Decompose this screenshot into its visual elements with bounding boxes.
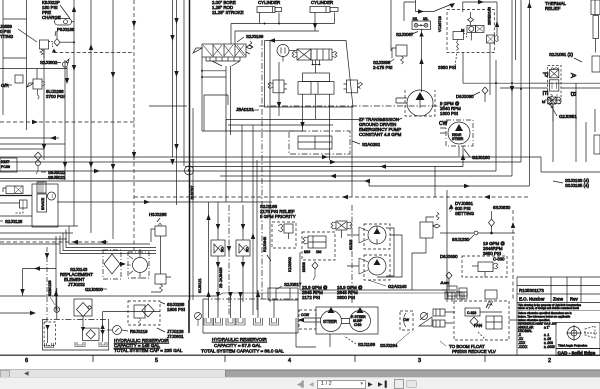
wires valve to blocks (313, 60, 320, 73)
svg-text:K0808: K0808 (302, 262, 306, 272)
svg-text:CAPACITY = 57.5 GAL: CAPACITY = 57.5 GAL (214, 343, 262, 348)
relief circle valve (56, 288, 58, 319)
svg-text:Unless otherwise specified dim: Unless otherwise specified dimensions ar… (518, 311, 572, 315)
wire (185, 146, 463, 167)
arrow right top wire (478, 0, 484, 4)
wires from pump box (296, 318, 316, 347)
S2J1168 priority relief group (260, 204, 302, 300)
wire (dashed) (0, 121, 134, 123)
wire (183, 0, 185, 166)
check diamond 6SJ0830 (489, 219, 495, 226)
dashed control box (302, 232, 335, 260)
spring left (292, 52, 297, 58)
svg-text:S2B0159: S2B0159 (48, 280, 52, 296)
wire (192, 108, 194, 300)
right edge verticals (586, 109, 595, 162)
svg-text:61J8121: 61J8121 (198, 278, 202, 293)
arrow up x421 mid (419, 58, 423, 64)
svg-text:unless otherwise specified.: unless otherwise specified. (518, 318, 550, 322)
diagonal wire (434, 4, 453, 12)
arrow left y268 (34, 266, 40, 270)
wires through check valves (218, 202, 243, 302)
top right valve M (467, 25, 476, 32)
wire (26, 0, 28, 130)
valve M top (548, 97, 556, 104)
svg-text:22L: 22L (413, 17, 419, 21)
svg-text:S2J1189: S2J1189 (358, 342, 376, 347)
wire x208.5 to reservoir (208, 202, 210, 290)
BRAKE box (37, 194, 47, 212)
dash-dot vertical x352 (351, 205, 353, 305)
wires into reservoir (209, 290, 275, 318)
wire diamond to bus (60, 41, 74, 43)
wire right (445, 312, 455, 323)
left vertical bus wires (3, 0, 193, 300)
heavy trunk wire (189, 0, 191, 300)
small rect below (485, 290, 497, 299)
arrows in reservoir drop (100, 324, 104, 329)
left box (273, 80, 284, 93)
arrow up x421 below box (419, 32, 423, 37)
arrow left on y176 (330, 174, 336, 178)
dashed vertical x122 (46, 247, 48, 322)
right mid wires (435, 97, 600, 302)
wire x270 (269, 41, 271, 303)
svg-text:E: E (541, 91, 550, 96)
svg-text:R105301173: R105301173 (519, 288, 544, 293)
svg-text:Rev: Rev (570, 297, 579, 302)
emergency pump block (298, 136, 332, 149)
junction circle on trunk (185, 166, 194, 175)
valve C-323 (465, 308, 480, 316)
svg-text:2B JAJ8435: 2B JAJ8435 (219, 268, 223, 288)
lower center-left group (149, 202, 250, 315)
wire x253 (252, 125, 254, 315)
wire (43, 49, 45, 160)
arrow left on enclosure top (269, 38, 275, 42)
junction dot (490, 232, 493, 235)
left cluster outer box (32, 184, 58, 227)
top-right pump circuit (373, 0, 548, 186)
svg-text:2172 PSI: 2172 PSI (302, 295, 320, 300)
svg-text:JBA0131: JBA0131 (236, 107, 254, 112)
directional valve S2J0199 (hatched 4-way) (193, 41, 253, 57)
wire y311.6 to gauge (103, 311, 160, 313)
3350 PSI relief (453, 32, 464, 40)
dashed box lower right (462, 256, 507, 277)
wires connecting motors (377, 228, 402, 277)
right box (592, 56, 600, 72)
svg-text:S3J0185 (4): S3J0185 (4) (565, 183, 589, 188)
diamond box in reservoir (83, 328, 100, 340)
svg-text:3350 PSI: 3350 PSI (438, 65, 456, 70)
accumulator (55, 19, 72, 26)
arrow down dash-dot (227, 246, 231, 252)
steering pump group (217, 292, 496, 354)
wire from gauge down (421, 29, 423, 92)
arrow up x529 (527, 2, 531, 8)
solenoid box with X (550, 70, 559, 78)
wire (0, 157, 600, 172)
svg-text:C-323: C-323 (467, 311, 476, 315)
wire (64, 60, 66, 180)
arrow right y313 left edge (30, 311, 36, 315)
wire dashed (0, 241, 109, 243)
bottom toolbar with page navigation (0, 377, 600, 389)
arrow down (111, 164, 115, 170)
third angle projection box (556, 323, 600, 349)
diamond D6J0080 (482, 87, 488, 94)
svg-text:CYLINDER: CYLINDER (311, 0, 333, 5)
valve block with X (297, 49, 311, 60)
svg-text:± 1°: ± 1° (544, 326, 550, 330)
leader wire (18, 29, 37, 42)
filter dash-dot box (103, 250, 121, 279)
lower right group (440, 201, 515, 302)
right box (347, 80, 358, 93)
arrow left on dashed y242 (72, 240, 78, 244)
svg-text:9 GPM PRIORITY: 9 GPM PRIORITY (260, 214, 296, 219)
down arrow x305 (300, 122, 304, 128)
arrow left on dashed y242 b (100, 240, 106, 244)
svg-text:C-330: C-330 (493, 257, 505, 262)
svg-text:Zone: Zone (553, 297, 564, 302)
arrow right on y157 (322, 155, 328, 159)
staircase wires (0, 225, 78, 227)
solenoid valve small (336, 221, 347, 230)
cylinder 1 (257, 7, 275, 13)
dashed enclosure around pilot group (447, 10, 494, 53)
drawing border + zone numbers (0, 355, 600, 364)
dash-dot vertical x262 (261, 40, 263, 300)
arrow up x56 (54, 290, 58, 296)
box K157 (0, 158, 17, 172)
svg-text:32L: 32L (423, 17, 429, 21)
left mid components (0, 152, 156, 322)
spring right (332, 52, 337, 58)
pump STEER (321, 311, 342, 332)
wire from rear pump down (458, 146, 460, 156)
svg-text:CHARGE: CHARGE (42, 15, 61, 20)
arrow down (111, 72, 115, 78)
arrow up small (52, 49, 56, 53)
bottom-left reservoir group (0, 288, 298, 354)
reservoir box (42, 319, 108, 350)
arrow up x253 (251, 233, 255, 239)
wire left edge (2, 0, 4, 115)
wire (3, 18, 27, 20)
wire y216 (0, 215, 32, 217)
dashed vertical x513 (512, 210, 514, 301)
arrow down x67 (65, 78, 69, 84)
wire (112, 0, 114, 239)
svg-text:G2J0800: G2J0800 (85, 287, 103, 292)
big enclosure box (204, 95, 228, 131)
svg-text:3700 PGI: 3700 PGI (46, 94, 65, 99)
heavy vertical into reservoir (188, 300, 190, 333)
right reservoir box (203, 299, 298, 333)
spring bottom (550, 94, 553, 108)
wire (0, 161, 521, 163)
dashes below valve2 (15, 208, 23, 213)
arrow down on cyl2 drop (313, 23, 317, 29)
buses turning right-down (446, 190, 448, 302)
arrow down x166 (170, 35, 174, 41)
zone ticks (93, 355, 485, 362)
shaft between pumps (341, 319, 350, 324)
wire (3, 84, 12, 86)
small solenoid valve (487, 35, 495, 43)
svg-text:K157: K157 (1, 160, 9, 164)
top-left area (0, 0, 133, 99)
svg-text:CONSTANT 4.6 GPM: CONSTANT 4.6 GPM (359, 132, 402, 137)
svg-text:inches. The tolerances below: inches. The tolerances below are applica… (518, 315, 571, 319)
dashed pump box (405, 90, 435, 116)
arrow down x22 (20, 289, 24, 295)
arrow down (132, 152, 136, 158)
filter box 1 (74, 299, 92, 316)
PEAB valve dashed enclosure (548, 65, 562, 103)
arrow right from filter (120, 262, 126, 266)
svg-text:S2J0802: S2J0802 (40, 60, 58, 65)
wire (0, 176, 512, 179)
junction dots (495, 82, 497, 84)
svg-text:A: A (569, 73, 578, 78)
open circle 6SJ1330 (474, 231, 478, 235)
svg-text:28RE0183: 28RE0183 (488, 7, 492, 25)
arrows on check valve wires (216, 224, 220, 230)
arrow down filter drop (81, 327, 85, 331)
svg-text:HYDRAULIC RESERVOIR: HYDRAULIC RESERVOIR (212, 337, 267, 342)
top right component (591, 0, 600, 15)
svg-text:O/R: O/R (1, 83, 9, 88)
arrow down (132, 21, 136, 27)
arrow down (174, 144, 178, 150)
striped cylinder (311, 49, 332, 60)
motor circle pair (364, 224, 390, 249)
arrow right on y188 (464, 184, 470, 188)
trapezoid enclosure (265, 41, 354, 108)
svg-text:S2J0199: S2J0199 (246, 34, 264, 39)
lower middle pump assembly (300, 205, 456, 305)
dashed leader (478, 332, 486, 340)
wires y170-175 right (434, 166, 436, 197)
svg-text:2: 2 (548, 358, 551, 364)
svg-text:STEER: STEER (452, 137, 464, 141)
arrow down x166 low (170, 159, 174, 165)
check diamond right (446, 272, 452, 279)
gauge circle (421, 313, 428, 320)
svg-text:FAN: FAN (474, 323, 482, 328)
arrow right on y162 (330, 160, 336, 164)
svg-text:P: P (541, 72, 550, 77)
priority valve box (272, 222, 296, 248)
title block (517, 277, 600, 356)
spring right of right box (358, 83, 363, 89)
arrow right on dashed wire (32, 120, 38, 124)
arrows down near x279 (277, 102, 281, 108)
CCW dashed box (299, 310, 316, 329)
arrow left on y166 (380, 164, 386, 168)
check valve diamond (35, 152, 42, 160)
top wire with corner (463, 2, 497, 35)
wire (90, 0, 92, 233)
gauge circle R8J0219 (113, 326, 122, 335)
svg-text:3: 3 (418, 358, 421, 364)
dash-dot vertical x229 (228, 205, 230, 315)
svg-text:JTJ0232: JTJ0232 (68, 282, 85, 287)
diamond (470, 317, 478, 326)
wire (176, 0, 178, 205)
striped block (37, 182, 46, 193)
CAD solid edge box (556, 349, 600, 356)
reservoir inlet arrows (206, 291, 210, 297)
twin pipe down (226, 66, 231, 202)
svg-text:6SJ0830: 6SJ0830 (493, 205, 511, 210)
cylinder 2 (310, 7, 330, 13)
svg-text:6: 6 (25, 358, 28, 364)
svg-text:G2A0248: G2A0248 (388, 284, 407, 289)
staircase drops (60, 226, 156, 254)
heavy wire y195.5 (0, 195, 32, 197)
wire (73, 0, 75, 226)
cone symbol (585, 326, 595, 338)
arrow down x175 (174, 18, 178, 24)
svg-text:± .0005: ± .0005 (544, 345, 555, 349)
horizontal scrollbar (0, 369, 600, 377)
svg-text:G2J0180: G2J0180 (472, 155, 490, 160)
svg-text:M16: M16 (304, 250, 310, 254)
arrow up x91 (89, 44, 93, 50)
svg-text:R8J0219: R8J0219 (130, 329, 148, 334)
svg-text:E.O. Number: E.O. Number (519, 297, 545, 302)
svg-text:1806 PSI: 1806 PSI (167, 307, 185, 312)
gauge circle S2J0802 (62, 62, 67, 67)
check symbol P8J0188 (54, 39, 60, 46)
wire (0, 148, 44, 150)
svg-text:2-175 PSI: 2-175 PSI (373, 65, 393, 70)
pump shaft (396, 98, 407, 103)
wires from x202 to pipe (202, 71, 226, 77)
CW dashed box right (400, 311, 413, 330)
upper small rect (303, 73, 330, 82)
svg-text:62J08: 62J08 (349, 240, 353, 250)
wire x56 down (55, 236, 57, 310)
svg-text:CCW: CCW (301, 313, 310, 317)
arrow right on y181 (364, 179, 370, 183)
arrow up x463 (461, 154, 465, 160)
svg-text:STEER: STEER (323, 319, 337, 324)
wire (545, 99, 560, 102)
leader wire to accumulator (60, 5, 70, 19)
svg-text:3800 PSI: 3800 PSI (337, 295, 355, 300)
svg-text:S2J0817: S2J0817 (284, 282, 302, 287)
wire (0, 170, 496, 172)
wires y119 y125 (226, 120, 360, 126)
valve outlet funnel (206, 57, 240, 61)
wire (0, 137, 59, 139)
svg-text:J0J0797: J0J0797 (191, 186, 195, 200)
motor circle (277, 45, 289, 57)
svg-text:VC28723: VC28723 (438, 16, 442, 32)
arrow down (89, 162, 93, 168)
wires (480, 312, 517, 320)
svg-text:whole or part, of design and d: whole or part, of design and details con… (518, 306, 579, 310)
main pump circle (407, 90, 433, 116)
ZF transmission block (289, 117, 402, 154)
svg-text:D6J0690: D6J0690 (440, 254, 458, 259)
relief valve S2J0398 (396, 45, 407, 56)
pump R STEER SUSP CHG (350, 311, 371, 332)
valve 6SJ0288 (128, 301, 160, 325)
drain diamond (312, 262, 318, 269)
arrow right on y202 (144, 200, 150, 204)
check valve box 1 (211, 240, 225, 256)
svg-text:NO: NO (221, 247, 225, 252)
svg-text:11.25" STROKE: 11.25" STROKE (212, 10, 244, 15)
fan circuit group (454, 292, 517, 340)
arrow up x497 (495, 21, 499, 27)
wire (0, 143, 65, 145)
strainers in right reservoir (204, 318, 213, 325)
dash-dot horizontal y106 (259, 105, 445, 107)
rear steer pump (448, 122, 470, 144)
wire turns (412, 253, 426, 290)
arrow up x513 (511, 222, 515, 228)
table frame (516, 277, 518, 355)
dashed wire y52 (54, 52, 133, 54)
wire bus y292 (217, 293, 456, 296)
dashed enclosure (454, 301, 509, 340)
svg-text:CYLINDER: CYLINDER (258, 0, 280, 5)
wire top-left box (3, 57, 27, 59)
small valve rects (433, 309, 445, 316)
filter diamond (104, 254, 120, 274)
wire (57, 201, 272, 203)
P line wire (463, 82, 548, 84)
svg-text:.6.cm: .6.cm (440, 281, 449, 285)
svg-text:S9J5021: S9J5021 (48, 175, 66, 180)
arrow right on y171 (94, 169, 100, 173)
second valve assembly top (268, 45, 363, 95)
left valve 1 (6, 186, 23, 194)
valve body mid (550, 80, 559, 91)
small rects top (445, 292, 455, 299)
wire (0, 181, 529, 186)
svg-text:S2J1081 (2): S2J1081 (2) (549, 52, 573, 57)
wire bus y296 (0, 295, 217, 297)
svg-text:RELIEF: RELIEF (545, 6, 561, 11)
svg-text:B: B (569, 92, 578, 97)
left valve 2 (20, 200, 28, 208)
gauge box S2J0087 (412, 21, 431, 29)
svg-text:6SJ1330: 6SJ1330 (452, 237, 470, 242)
svg-text:NO: NO (246, 247, 250, 252)
arrow up-right (449, 3, 455, 8)
wire down x160 (160, 244, 162, 274)
valve cluster bottom left (447, 286, 457, 296)
valve lower (155, 274, 166, 284)
svg-text:TOTAL SYSTEM CAP = 235 GAL: TOTAL SYSTEM CAP = 235 GAL (114, 348, 183, 353)
wires from valve assembly down (303, 94, 330, 160)
svg-text:TOTAL SYSTEM CAPACITY = 86.0 G: TOTAL SYSTEM CAPACITY = 86.0 GAL (201, 349, 284, 354)
svg-text:P8J0188: P8J0188 (57, 27, 75, 32)
arrow down x175 low (174, 71, 178, 77)
arrow up (72, 6, 76, 12)
wires right cluster (463, 32, 471, 83)
svg-text:D6J0080: D6J0080 (456, 94, 474, 99)
thermal relief / PEAB valve (530, 0, 600, 121)
